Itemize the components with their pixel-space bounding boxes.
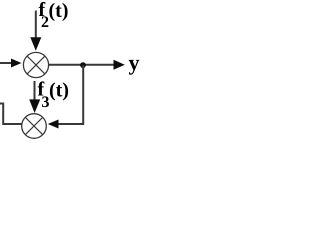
wire: output of top multiplier to y bbox=[49, 64, 115, 66]
wire: feedback down from junction bbox=[82, 65, 84, 123]
wire: input into top multiplier from left bbox=[0, 62, 12, 64]
wire: f2 vertical arrow into top multiplier bbox=[35, 11, 37, 40]
multiplier node bottom bbox=[22, 114, 47, 139]
wire: bottom multiplier left connection going up and off left edge bbox=[0, 104, 22, 125]
label y output bbox=[129, 60, 140, 75]
wire: feedback left into bottom multiplier bbox=[59, 123, 85, 125]
multiplier node top bbox=[23, 52, 48, 77]
wire: f3 vertical arrow into bottom multiplier bbox=[34, 81, 36, 101]
label f2(t) bbox=[39, 2, 68, 27]
label f3(t) bbox=[38, 81, 68, 107]
node: junction dot bbox=[80, 62, 86, 68]
